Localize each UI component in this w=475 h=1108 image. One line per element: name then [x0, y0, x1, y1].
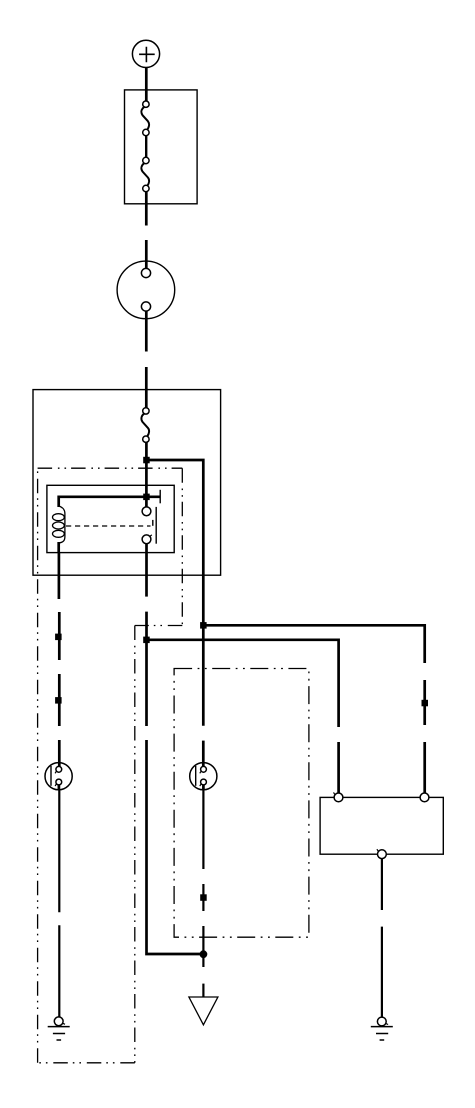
component outline 1 (dash-dot-dot) — [38, 468, 183, 1063]
wire left segment 2 — [58, 674, 61, 726]
connector mark on wire A — [422, 700, 429, 707]
fusible link FL2 — [141, 157, 149, 191]
connector box (dimmer control unit) — [320, 797, 443, 854]
wire to ground G1 — [58, 925, 60, 1017]
wire A segment 3 — [423, 742, 426, 793]
node junction wire B — [143, 637, 150, 644]
relay actuator dashed link — [66, 525, 151, 527]
node junction relay switch feed — [143, 494, 150, 501]
wire B segment 2 — [337, 742, 340, 793]
lamp L2 — [190, 763, 217, 790]
connector C1 circle — [117, 261, 175, 319]
node junction wire A — [200, 622, 207, 629]
ground G1 — [48, 1017, 70, 1040]
node junction at branch to right — [143, 457, 150, 464]
connector C1 terminal pin bottom — [141, 302, 150, 311]
relay inner box — [47, 485, 174, 552]
wire FL2 down, exits box — [145, 192, 148, 226]
relay lower contact — [142, 535, 152, 544]
wire left coil down — [58, 553, 61, 599]
wire FL3 to relay — [145, 442, 148, 507]
wire right branch upper — [202, 625, 205, 725]
relay actuator tick — [152, 520, 154, 526]
connector mark on left wire — [55, 634, 62, 641]
wire branch right from node — [146, 460, 203, 625]
wire below junction to ground arrow — [202, 954, 204, 967]
connector mark on lamp L2 wire — [200, 894, 207, 901]
relay upper contact — [142, 507, 151, 516]
wire lamp L2 segment 3 — [202, 926, 204, 954]
battery positive terminal B+ — [132, 40, 159, 67]
wire relay switch down — [145, 544, 148, 597]
junction block box — [33, 390, 221, 576]
wire A segment 2 — [423, 680, 426, 725]
node junction bottom — [200, 950, 208, 958]
ground arrow triangle — [189, 997, 218, 1025]
wire lamp L1 to ground segment — [58, 790, 60, 913]
component outline 2 (dash-dot-dot) — [174, 669, 309, 938]
wire into FL1 — [145, 90, 148, 101]
terminal pin top right of connector box — [420, 793, 429, 802]
wire left segment with connectors — [58, 612, 61, 660]
wire segment into junction block — [145, 367, 148, 408]
connector mark 2 on left wire — [55, 697, 62, 704]
terminal pin top left of connector box — [334, 792, 343, 801]
lamp L1 — [45, 763, 72, 790]
fusible link FL3 — [141, 408, 149, 443]
connector C1 terminal pin top — [141, 268, 150, 277]
wire lamp L2 segment 2 — [202, 884, 204, 911]
fusible link FL1 — [141, 101, 149, 136]
relay armature line — [155, 507, 157, 544]
wire left to lamp — [58, 740, 61, 767]
terminal pin bottom of connector box — [377, 849, 386, 858]
ground G2 — [371, 1017, 393, 1040]
wire connector box to ground segment — [381, 859, 383, 910]
wire main long down — [147, 740, 204, 954]
ground arrow stub — [202, 984, 204, 997]
wire segment to connector — [145, 240, 148, 268]
wire below connector — [145, 311, 148, 351]
relay fixed contact bar — [159, 490, 161, 504]
wire FL1 to FL2 — [145, 136, 147, 158]
fusible link box — [125, 90, 198, 204]
relay feed wire horizontal — [59, 497, 160, 507]
relay coil — [53, 506, 65, 553]
wire B to right — [147, 640, 339, 727]
wire right branch into lamp — [202, 741, 205, 767]
wire lamp L2 down — [202, 790, 204, 869]
wire A to right — [203, 625, 424, 663]
wire relay switch lower segment — [145, 612, 148, 726]
wire to ground G2 — [381, 927, 383, 1017]
wire battery to fusible link box — [145, 68, 148, 90]
